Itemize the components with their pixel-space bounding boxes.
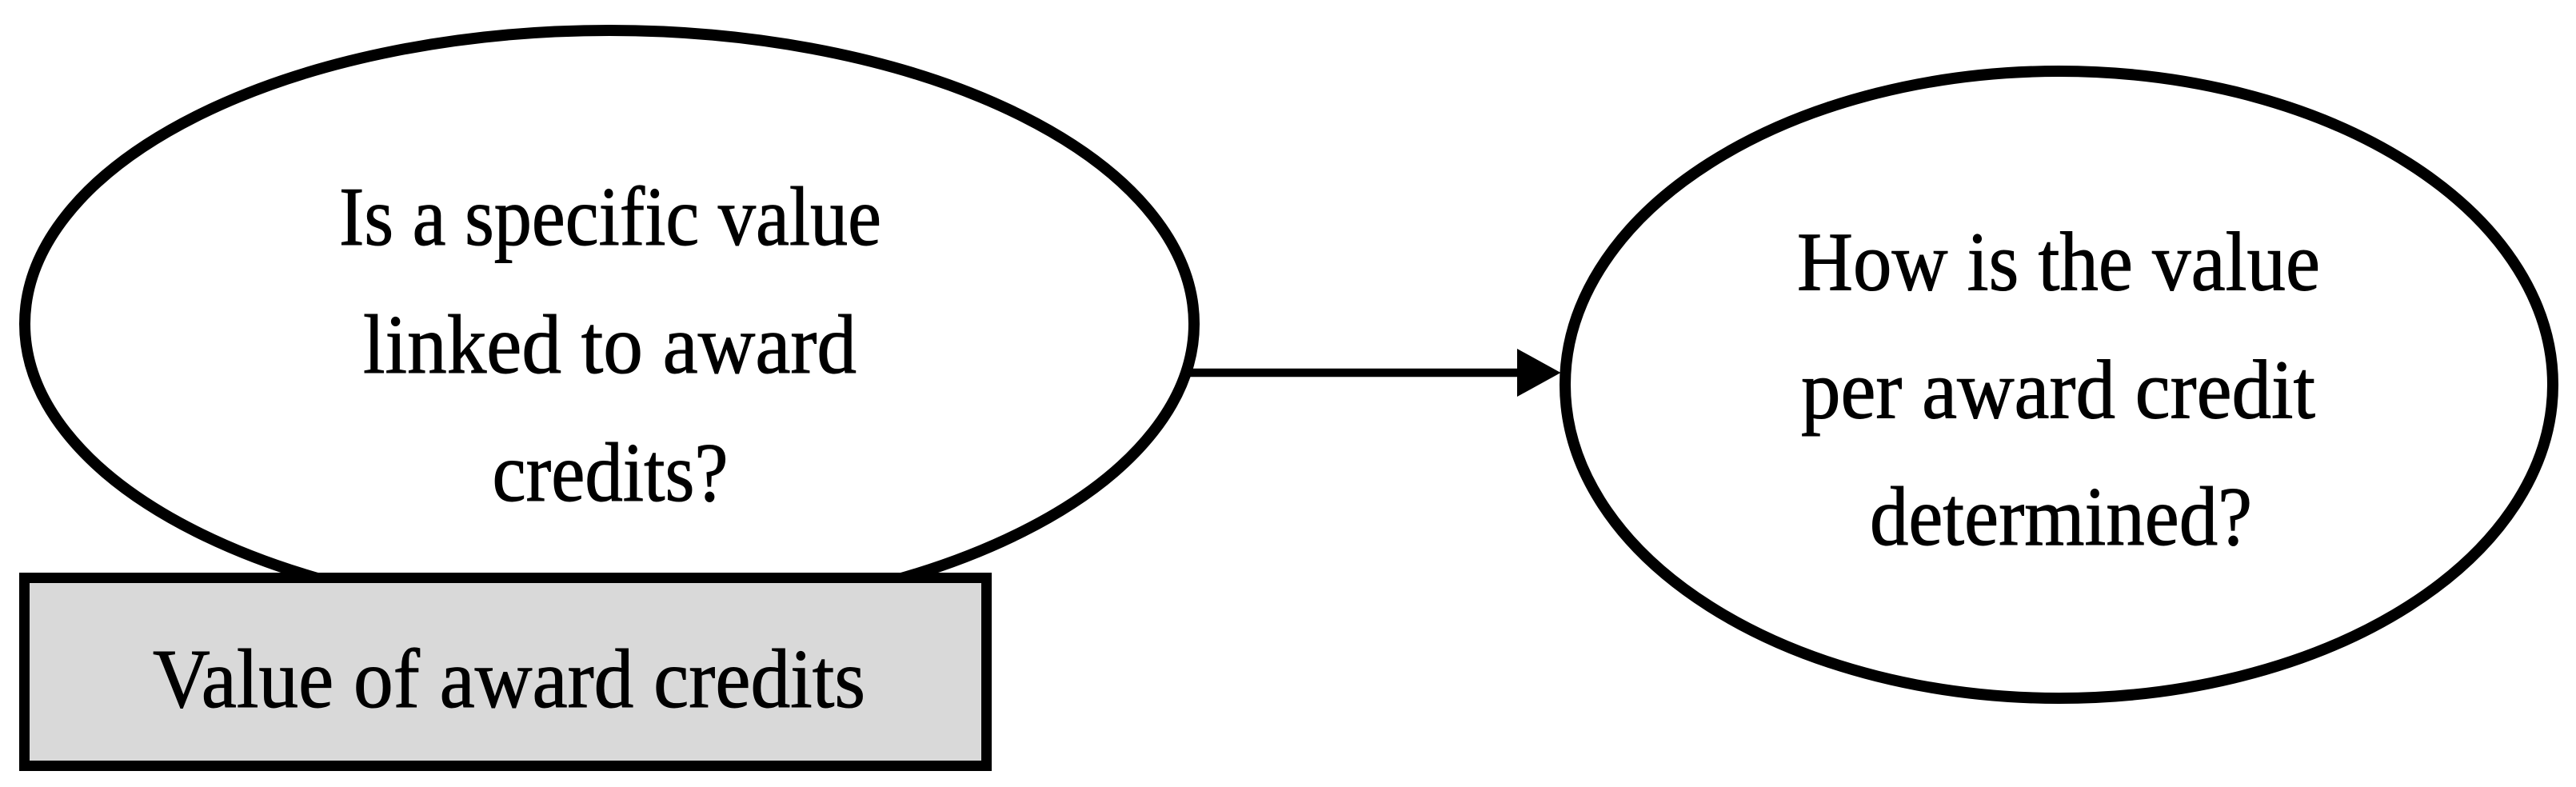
svg-text:per award credit: per award credit: [1801, 343, 2315, 437]
svg-text:Value of award credits: Value of award credits: [153, 632, 865, 725]
svg-text:linked to award: linked to award: [363, 298, 857, 391]
svg-text:determined?: determined?: [1870, 469, 2252, 563]
svg-text:credits?: credits?: [493, 425, 729, 519]
svg-text:Is a specific value: Is a specific value: [339, 170, 881, 263]
svg-text:How is the value: How is the value: [1797, 215, 2320, 309]
